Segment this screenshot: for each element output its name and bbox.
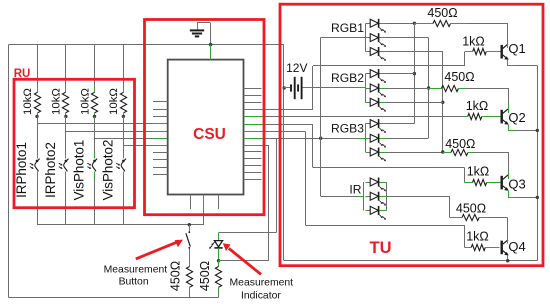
svg-text:10kΩ: 10kΩ [79, 88, 91, 115]
wire: RGB3 D2 cathode [387, 138, 429, 140]
wire: RGB1 D3 cathode [387, 51, 443, 53]
pin: CSU top pin [210, 45, 212, 60]
svg-text:1kΩ: 1kΩ [467, 165, 490, 179]
wire: RGB2 D2 cathode [387, 88, 429, 90]
wire: TU bottom bus [284, 260, 537, 262]
LED RGB1 D1 [366, 19, 387, 33]
wire: RGB2 anode bracket [365, 74, 367, 103]
svg-text:Indicator: Indicator [241, 291, 281, 302]
wire: RGB3 anode bracket [365, 124, 367, 152]
resistor R4 10k [120, 88, 126, 117]
LED IR D3 [366, 206, 387, 220]
wire: CSU bottom pin to button [203, 195, 205, 214]
wire: RGB1 anode bracket [365, 23, 367, 51]
wire: cathode bus 2 [428, 38, 430, 139]
svg-text:10kΩ: 10kΩ [51, 88, 63, 115]
wire: CSU pin net Q1 base [244, 109, 267, 111]
transistor Q4 [502, 240, 509, 256]
node: bus1 top [413, 22, 416, 25]
node: rail Q3 [536, 196, 539, 199]
wire: CSU pin net Q4 base [244, 131, 267, 133]
wire: top bus [9, 44, 284, 46]
svg-text:RGB1: RGB1 [331, 21, 364, 35]
annotation arrow to indicator [229, 248, 261, 274]
wire: column 3 lower [94, 180, 96, 225]
svg-text:450Ω: 450Ω [444, 70, 474, 84]
wire: IR cathode bracket [386, 182, 388, 210]
resistor R5 450 [186, 267, 192, 298]
LED RGB2 D2 [366, 84, 387, 98]
battery BT1 12V [284, 77, 313, 99]
node: indicator junction [217, 259, 220, 262]
LED RGB3 D3 [366, 148, 387, 162]
wire: column 2 mid [65, 116, 67, 151]
resistor R2 10k [62, 88, 68, 117]
wire: indicator to CSU pin return [219, 260, 269, 262]
svg-text:1kΩ: 1kΩ [466, 230, 489, 244]
node: junction R3/photo3 [93, 115, 96, 118]
resistor R3 10k [91, 88, 97, 117]
node: junction R4/photo4 [122, 115, 125, 118]
node: battery junction [283, 86, 286, 89]
svg-text:Q4: Q4 [508, 239, 525, 254]
wire: Q1 emitter to rail [507, 59, 509, 65]
node: anode feed junction [319, 137, 322, 140]
transistor Q2 [502, 109, 509, 125]
wire: Q4 collector [507, 236, 509, 243]
wire: Q3 collector [508, 171, 510, 179]
pins: CSU left stubs [153, 102, 168, 175]
resistor R6 450 [215, 261, 221, 298]
ground [190, 23, 204, 37]
annotation box TU [280, 4, 543, 266]
svg-text:12V: 12V [286, 61, 307, 75]
annotation box RU [14, 79, 135, 207]
LED RGB3 D1 [366, 119, 387, 133]
wire: RGB2 D3 cathode [387, 102, 443, 104]
svg-text:450Ω: 450Ω [456, 202, 486, 216]
resistor R450-3 450 [443, 149, 509, 170]
svg-text:10kΩ: 10kΩ [22, 88, 34, 115]
LED D1 measurement indicator [209, 232, 223, 260]
wire: RU column 1 upper [37, 45, 39, 88]
wire: Q2 emitter to rail [508, 124, 510, 130]
phototransistor IRPhoto2 [59, 152, 69, 180]
transistor Q1 [502, 44, 509, 60]
wire: column 3 to CSU pin [95, 138, 153, 140]
node: top bus junction [209, 43, 212, 46]
svg-text:450Ω: 450Ω [169, 261, 183, 291]
wire: CSU pin net Q2 base [244, 116, 267, 118]
wire: CSU pin net anode feed / RGB3 [244, 138, 267, 140]
resistor R450-2 450 [429, 85, 509, 104]
annotation arrow to button [136, 242, 177, 259]
wire: column 4 lower [123, 180, 125, 225]
resistor R1k-2 1k [465, 113, 501, 119]
wire: RGB1 D2 cathode [387, 37, 429, 39]
wire: CSU pin net Q3 base [244, 124, 267, 126]
node: bus3 bottom [441, 150, 444, 153]
svg-text:RU: RU [14, 68, 31, 80]
switch S1 measurement button [186, 225, 190, 266]
wire: RU column 4 upper [123, 45, 125, 88]
svg-text:Measurement: Measurement [104, 264, 168, 275]
svg-text:IRPhoto1: IRPhoto1 [14, 142, 29, 198]
wire: column 3 mid [94, 116, 96, 151]
LED RGB2 D3 [366, 98, 387, 112]
wire: bottom bus [9, 297, 219, 299]
resistor R1k-4 1k [464, 244, 499, 250]
IC U1 CSU body [168, 60, 244, 195]
wire: button bus [37, 224, 204, 226]
wire: column 1 to CSU pin [37, 123, 153, 125]
svg-text:1kΩ: 1kΩ [462, 35, 485, 49]
wire: indicator top feed [219, 232, 277, 234]
wire: ground to top bus [197, 22, 211, 24]
node: bus2 RGB2 tap [427, 86, 430, 89]
svg-text:450Ω: 450Ω [427, 6, 457, 20]
resistor R1k-3 1k [464, 179, 500, 185]
wire: Q3 emitter to rail [508, 190, 510, 197]
wire: cathode bus 3 [442, 52, 444, 153]
wire: battery to RGB2 feed [313, 87, 359, 89]
LED IR D1 [366, 178, 387, 192]
LED RGB1 D2 [366, 33, 387, 47]
pins: CSU bottom stubs [191, 195, 219, 210]
node: bus1 RGB2 tap [413, 72, 416, 75]
svg-text:450Ω: 450Ω [445, 137, 475, 151]
wire: Q2 collector [508, 105, 510, 113]
wire: Q4 emitter to bus [507, 255, 509, 261]
wire: column 4 to CSU pin [123, 145, 152, 147]
LED IR D2 [366, 192, 387, 206]
LED RGB2 D1 [366, 69, 387, 83]
wire: IR feed [321, 196, 357, 198]
wire: column 1 lower [37, 180, 39, 225]
wire: cathode bus 1 [414, 23, 416, 123]
svg-text:RGB3: RGB3 [331, 121, 364, 135]
wire: RU column 2 upper [65, 45, 67, 88]
wire: RU column 3 upper [94, 45, 96, 88]
phototransistor IRPhoto1 [30, 152, 40, 180]
wire: IR output to R450-4 [386, 196, 450, 198]
wire: left vertical rail [8, 45, 10, 298]
wire: column 2 to CSU pin [66, 131, 153, 133]
svg-text:Q2: Q2 [508, 110, 525, 125]
svg-text:IR: IR [349, 183, 361, 197]
svg-text:Measurement: Measurement [230, 277, 294, 288]
node: rail Q2 [536, 129, 539, 132]
svg-text:VisPhoto2: VisPhoto2 [101, 140, 116, 201]
svg-text:1kΩ: 1kΩ [466, 99, 489, 113]
annotation box CSU [145, 20, 265, 215]
wire: anode feed vertical [320, 38, 322, 197]
resistor R450-1 450 [414, 20, 508, 43]
phototransistor VisPhoto1 [87, 152, 97, 180]
wire: RGB3 D1 cathode [387, 123, 415, 125]
svg-text:TU: TU [370, 239, 392, 257]
resistor R450-4 450 [450, 214, 508, 236]
wire: TU inner left rail [283, 45, 285, 261]
wire: IR anode bracket [363, 182, 365, 210]
wire: indicator top to RGB3 feed [276, 138, 278, 232]
resistor R1 10k [34, 88, 40, 117]
phototransistor VisPhoto2 [116, 152, 126, 180]
wire: column 2 lower [65, 180, 67, 225]
svg-text:RGB2: RGB2 [331, 71, 364, 85]
node: bus Q4 [506, 259, 509, 262]
wire: column 4 mid [123, 116, 125, 151]
pins: CSU right stubs [244, 89, 262, 180]
svg-text:CSU: CSU [193, 126, 226, 143]
svg-text:Q3: Q3 [508, 177, 525, 192]
svg-text:450Ω: 450Ω [198, 261, 212, 291]
wire: RGB3 D3 cathode [387, 152, 443, 154]
node: junction R1/photo1 [35, 115, 38, 118]
node: junction R2/photo2 [64, 115, 67, 118]
svg-text:IRPhoto2: IRPhoto2 [43, 142, 58, 198]
wire: Q1 collector [507, 44, 509, 48]
svg-text:Q1: Q1 [508, 41, 525, 56]
wire: column 1 mid [37, 116, 39, 151]
wire: RGB1 D1 cathode to R450-1 [387, 23, 415, 25]
svg-text:VisPhoto1: VisPhoto1 [72, 140, 87, 201]
svg-text:Button: Button [119, 277, 149, 288]
resistor R1k-1 1k [465, 48, 501, 54]
wire: RGB2 D1 cathode [387, 73, 415, 75]
node: button junction [188, 223, 191, 226]
node: bus3 RGB2 tap [441, 101, 444, 104]
svg-text:10kΩ: 10kΩ [108, 88, 120, 115]
transistor Q3 [502, 175, 509, 191]
LED RGB3 D2 [366, 134, 387, 148]
wire: RGB1 feed [321, 37, 366, 39]
LED RGB1 D3 [366, 47, 387, 61]
wire: emitter rail right [537, 66, 539, 261]
